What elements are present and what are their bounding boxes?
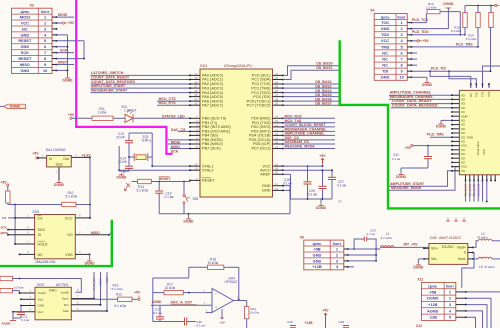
svg-text:GND: GND xyxy=(21,68,30,73)
svg-text:CB_BUS7: CB_BUS7 xyxy=(315,101,332,105)
svg-text:C28: C28 xyxy=(339,320,345,324)
svg-text:CB_BUS3: CB_BUS3 xyxy=(315,84,332,88)
svg-text:TCK: TCK xyxy=(381,20,389,25)
wire Vin- to DGND xyxy=(418,258,424,260)
svg-text:AGND: AGND xyxy=(1,321,11,325)
pin 8 PB7 (SCK) xyxy=(190,148,200,150)
pin 7 Sync DD3 xyxy=(71,298,94,300)
wire ground rail under reset xyxy=(159,213,290,215)
svg-text:VCC: VCC xyxy=(65,216,73,220)
svg-text:Конт: Конт xyxy=(398,16,406,20)
pin PLD bottom 3 xyxy=(473,175,475,181)
wire AMPLITUDE_CHANNEL to PLD xyxy=(389,94,452,96)
svg-text:MISO: MISO xyxy=(91,231,100,235)
svg-text:AMPLITUDE_CHANNEL: AMPLITUDE_CHANNEL xyxy=(285,132,326,136)
pin 16 PD2 (INT0) xyxy=(273,126,284,128)
svg-text:-12В: -12В xyxy=(429,315,438,320)
pin 26 PC4 (TDO) xyxy=(273,92,284,94)
resistor R17 10 kOhm (input) xyxy=(164,290,183,294)
wire CB_BUS1 from PC1 xyxy=(283,70,339,79)
svg-text:Vin-: Vin- xyxy=(431,257,438,261)
svg-text:PA3 (ADC3): PA3 (ADC3) xyxy=(202,86,224,90)
pin PLD left 10 xyxy=(452,132,459,134)
svg-text:12: 12 xyxy=(194,167,198,171)
wire MCU_CTS to PA6 xyxy=(157,100,190,102)
svg-text:CS: CS xyxy=(2,216,6,220)
svg-text:VoutB: VoutB xyxy=(60,291,68,295)
resistor R15 5.1 kOhm xyxy=(464,6,466,13)
wire PLD_TDO xyxy=(412,34,465,36)
wire LED to PB0 xyxy=(133,117,190,119)
svg-text:DGND: DGND xyxy=(427,296,439,301)
svg-text:AM4T-0115DZ: AM4T-0115DZ xyxy=(439,236,461,240)
wire CB_BUS2 from PC2 xyxy=(283,83,339,85)
svg-text:11: 11 xyxy=(275,182,278,186)
pin PLD bottom 5 xyxy=(482,175,484,181)
wire PLD bottom xyxy=(465,181,467,202)
pin Vout+ DA5 xyxy=(468,246,473,248)
svg-text:+: + xyxy=(215,305,217,309)
pin 36 PA4 (ADC4) xyxy=(190,92,200,94)
svg-text:PLD_TMS: PLD_TMS xyxy=(427,132,444,136)
wire X11 row 3 xyxy=(456,304,466,306)
pin 12 XTAL2 xyxy=(190,169,200,171)
wire SCK to PB7 xyxy=(170,148,190,150)
wire MOSI to PB5 xyxy=(168,139,190,141)
svg-text:Vout+: Vout+ xyxy=(457,246,466,250)
pin PLD bottom 2 xyxy=(469,175,471,181)
svg-text:Vref: Vref xyxy=(38,310,44,314)
svg-text:20: 20 xyxy=(275,140,279,144)
ground DGND under DA1 xyxy=(58,181,60,183)
svg-text:Vout-: Vout- xyxy=(458,257,467,261)
svg-text:37: 37 xyxy=(194,85,198,89)
wire XTAL2 xyxy=(119,169,190,171)
svg-text:X7: X7 xyxy=(338,200,342,204)
svg-text:X11: X11 xyxy=(417,278,423,282)
LED VD1 L-934GT xyxy=(125,114,133,122)
svg-text:DA5: DA5 xyxy=(430,236,437,240)
capacitor C31 0.1uF xyxy=(427,146,429,157)
svg-text:RESET: RESET xyxy=(159,177,172,181)
svg-text:+5V: +5V xyxy=(68,21,75,25)
svg-text:1 кОм: 1 кОм xyxy=(98,110,107,114)
connector X4 xyxy=(374,14,407,81)
svg-text:39: 39 xyxy=(194,76,198,80)
wire COUNT_DATA_RECEIVED to PA2 xyxy=(91,83,191,85)
wire VoutA xyxy=(19,291,21,293)
resistor R14 5.1 kOhm (pullup) xyxy=(477,6,479,13)
pin PLD left 14 xyxy=(452,149,459,151)
wire crystal network xyxy=(118,146,120,171)
svg-text:5.1 кОм: 5.1 кОм xyxy=(66,195,77,199)
wire AMPLITUDE_START to PLD xyxy=(389,171,452,187)
wire AMPLITUDE_CHANNEL from PD4 xyxy=(283,134,335,136)
svg-text:+12В: +12В xyxy=(312,264,322,269)
pin 2 Vdd DD3 xyxy=(21,298,35,300)
wire VCC rail xyxy=(283,165,323,167)
svg-text:10 кОм: 10 кОм xyxy=(165,286,176,290)
wire RESET loop X3 xyxy=(57,40,85,42)
svg-text:35: 35 xyxy=(194,93,198,97)
svg-text:0.1 мк: 0.1 мк xyxy=(283,182,293,186)
svg-text:+5V: +5V xyxy=(134,291,141,295)
wire PLD bottom xyxy=(482,181,484,202)
wire AMPLITUDE_START to PA3 xyxy=(91,87,191,89)
wire cap ground rail xyxy=(291,198,333,200)
svg-text:SCK: SCK xyxy=(171,150,179,154)
svg-text:DGND: DGND xyxy=(117,176,128,180)
pin 34 PA6 (ADC6) xyxy=(190,100,200,102)
svg-text:0.1 мк: 0.1 мк xyxy=(337,183,347,187)
svg-text:+5V: +5V xyxy=(405,146,412,150)
svg-text:L-934GT: L-934GT xyxy=(124,109,137,113)
pin 3 GND DD3 xyxy=(21,305,35,307)
svg-text:Sync: Sync xyxy=(62,297,69,301)
svg-text:18: 18 xyxy=(275,132,279,136)
svg-text:22 пФ: 22 пФ xyxy=(116,135,125,139)
wire MESSBAUER_CHANNEL to PLD xyxy=(389,98,452,100)
wire CB_BUS3 from PC3 xyxy=(283,87,339,89)
svg-text:Sclk: Sclk xyxy=(63,309,69,313)
pin PLD left 7 xyxy=(452,119,459,121)
wire Vdd rail xyxy=(71,298,117,300)
svg-text:DGND: DGND xyxy=(413,266,424,270)
wire pin 1 stub xyxy=(206,312,213,314)
svg-text:GND: GND xyxy=(381,26,390,31)
pin 29 PC7 (TOSC2) xyxy=(273,104,284,106)
power +5V bottom center xyxy=(325,313,327,328)
svg-text:PA7 (ADC7): PA7 (ADC7) xyxy=(202,103,224,107)
pin 5 SI DD2 xyxy=(8,234,35,236)
wire MCU_RTS to PA7 xyxy=(157,104,190,106)
wire +5V pullup rail xyxy=(465,5,495,7)
resistor R10 5.1 kOhm (horizontal) xyxy=(8,204,62,206)
pin 15 PD1 (TXD) xyxy=(273,122,284,124)
svg-text:27: 27 xyxy=(275,93,279,97)
svg-text:+5V: +5V xyxy=(32,152,39,156)
svg-text:L5: L5 xyxy=(479,265,483,269)
svg-text:GND: GND xyxy=(262,184,271,188)
wire GND to DGND above X4 xyxy=(412,28,449,30)
svg-text:PD6 (ICP): PD6 (ICP) xyxy=(253,142,271,146)
pin 6 Din DD3 xyxy=(71,304,100,306)
svg-text:Gnd: Gnd xyxy=(56,162,63,166)
pin Vout- DA5 xyxy=(468,258,473,260)
svg-text:5.1 кОм: 5.1 кОм xyxy=(466,37,476,41)
power +5V for DD2 pullup xyxy=(7,184,9,186)
wire +12B stub X6 xyxy=(348,266,354,268)
svg-text:33: 33 xyxy=(194,102,198,106)
capacitor C28 xyxy=(343,325,349,327)
svg-text:NC: NC xyxy=(22,26,28,31)
pin 19 PD5 (OC1A) xyxy=(273,139,284,141)
svg-text:SI: SI xyxy=(38,233,41,237)
svg-text:MISO: MISO xyxy=(20,62,30,67)
ground DGND at DA5 xyxy=(417,263,419,265)
pin 10 VCC xyxy=(273,165,284,167)
svg-text:PLD_TDI: PLD_TDI xyxy=(431,67,446,71)
svg-text:10 кОм: 10 кОм xyxy=(250,310,260,314)
svg-text:PB0 (SCK T0): PB0 (SCK T0) xyxy=(202,117,227,121)
svg-text:VSS: VSS xyxy=(65,253,73,257)
wire op-amp V- down xyxy=(221,309,223,319)
svg-text:GND: GND xyxy=(313,258,322,263)
wire LATCHES_SWITCH to PA0 xyxy=(91,74,191,76)
svg-text:DD3: DD3 xyxy=(37,283,44,287)
svg-text:AREF: AREF xyxy=(260,173,271,177)
wire GND rows X6 xyxy=(348,254,376,256)
svg-text:0.1 мк: 0.1 мк xyxy=(165,195,175,199)
svg-text:TDI: TDI xyxy=(382,69,388,74)
pin PLD left 6 xyxy=(452,115,459,117)
connector X6 xyxy=(304,240,344,270)
pin PLD top stubs xyxy=(470,84,472,88)
wire CB_BUS5 from PC5 xyxy=(283,96,339,98)
pin 1 CS DD2 xyxy=(15,217,34,219)
svg-text:DATARAM_CS: DATARAM_CS xyxy=(285,140,310,144)
wire CB_BUS6 from PC6 xyxy=(283,100,339,102)
resistor R11 1 kOhm xyxy=(72,117,92,119)
svg-text:GND: GND xyxy=(21,32,30,37)
wire MCU_TxD from PD1 xyxy=(283,122,335,124)
pin 32 AREF xyxy=(273,173,284,175)
power +5V at X3.2 xyxy=(62,22,64,24)
pin PLD bottom 1 xyxy=(465,175,467,181)
wire VCC from X3.2 xyxy=(57,22,63,24)
svg-text:SCK: SCK xyxy=(38,228,46,232)
svg-text:AGND: AGND xyxy=(152,300,163,304)
svg-text:Конт: Конт xyxy=(446,285,454,289)
wire DAC_CS to PB3 xyxy=(178,130,190,132)
svg-text:SCK: SCK xyxy=(1,226,8,230)
svg-text:PB4 (SS): PB4 (SS) xyxy=(202,134,219,138)
svg-text:DAC_CS: DAC_CS xyxy=(171,128,186,132)
svg-text:DGND: DGND xyxy=(63,79,74,83)
port DGND (left edge) xyxy=(4,104,26,108)
power +5V to PLD VCC xyxy=(411,145,413,147)
svg-text:5.1 кОм: 5.1 кОм xyxy=(112,287,123,291)
wire COUNT_BLOCK_RESET from PD2 xyxy=(283,126,335,128)
svg-text:DAC: DAC xyxy=(49,289,57,293)
svg-text:32: 32 xyxy=(275,171,279,175)
svg-text:5.1 кОм: 5.1 кОм xyxy=(115,304,126,308)
op-amp, sorry, MCU DD4 ATmega324A-PU body xyxy=(200,69,273,197)
svg-text:MOSI: MOSI xyxy=(1,231,9,235)
resistor R22 (left edge, bottom) xyxy=(0,288,13,292)
svg-text:PA1 (ADC1): PA1 (ADC1) xyxy=(202,78,224,82)
svg-text:+5В: +5В xyxy=(313,246,320,251)
wire MISO to PB6 xyxy=(168,143,190,145)
svg-text:+5V: +5V xyxy=(322,309,329,313)
pin 4 Vref DD3 xyxy=(13,311,35,313)
svg-text:CB_BUS1: CB_BUS1 xyxy=(316,66,333,70)
pin 14 PD0 (RXD) xyxy=(273,117,284,119)
pin 8 VCC DD2 xyxy=(75,217,90,219)
switch SB1 xyxy=(183,182,185,195)
wire 0 pin xyxy=(462,253,474,288)
diode VD2 (reset) xyxy=(125,183,131,191)
svg-text:+12В: +12В xyxy=(305,321,314,325)
svg-text:RESET: RESET xyxy=(202,179,215,183)
wire DATARAM_CS from PD6 xyxy=(283,143,335,145)
svg-text:2.2 кОм: 2.2 кОм xyxy=(426,5,436,9)
svg-text:TDI: TDI xyxy=(474,92,478,97)
wire GND bus X3 xyxy=(57,34,68,36)
wire MESSBAUER_START to PA4 xyxy=(91,92,191,94)
wire DSP_CS from PD5 xyxy=(283,139,335,141)
pin 33 PA7 (ADC7) xyxy=(190,104,200,106)
svg-text:AMPLITUDE_START: AMPLITUDE_START xyxy=(91,84,126,88)
wire COUNT_DATA_RECEIVED to PLD xyxy=(391,107,452,109)
pin PLD left 12 xyxy=(452,140,459,142)
svg-text:RESET: RESET xyxy=(18,38,32,43)
svg-text:5.1 кОм: 5.1 кОм xyxy=(137,189,148,193)
svg-text:+5V: +5V xyxy=(68,113,75,117)
svg-text:10 кОм: 10 кОм xyxy=(14,286,24,290)
svg-text:DGND: DGND xyxy=(10,105,21,109)
wire CB_BUS4 from PC4 xyxy=(283,92,339,94)
svg-text:NC: NC xyxy=(382,63,388,68)
pin 21 PD7 (OC2) xyxy=(273,148,284,150)
pin 7 PB6 (MISO) xyxy=(190,143,200,145)
pin 40 PA0 (ADC0) xyxy=(190,74,200,76)
svg-text:MCU_RxD: MCU_RxD xyxy=(285,115,303,119)
wire AREF xyxy=(283,173,291,175)
pin 3 DA1 / +3.3V rail xyxy=(71,156,90,158)
pin 6 SCK DD2 xyxy=(8,229,35,231)
svg-text:DGND: DGND xyxy=(443,2,454,6)
svg-text:MISO: MISO xyxy=(58,60,67,64)
svg-text:−: − xyxy=(215,291,217,295)
ground DGND crystal xyxy=(123,171,125,173)
wire MEASURE_MODE to PLD xyxy=(389,167,459,191)
svg-text:GND: GND xyxy=(262,189,271,193)
svg-text:DD2: DD2 xyxy=(33,210,40,214)
wire PLD_TMS to PLD xyxy=(430,136,452,138)
svg-text:RESET: RESET xyxy=(18,56,32,61)
svg-text:DGND: DGND xyxy=(422,83,433,87)
svg-text:PC1 (SDA): PC1 (SDA) xyxy=(251,78,271,82)
svg-text:STATUS_LED: STATUS_LED xyxy=(162,114,185,118)
DD3 AD7303 body xyxy=(35,287,71,320)
svg-text:TDO: TDO xyxy=(381,32,389,37)
DD2 25AA256 body xyxy=(35,215,76,259)
svg-text:VCC: VCC xyxy=(487,91,491,97)
pin 27 PC5 (TDI) xyxy=(273,96,284,98)
capacitor C30 4.7uF (bridge) xyxy=(354,239,364,249)
wire PLD top pin 3 xyxy=(483,66,500,84)
power +5V MCU xyxy=(322,158,324,163)
svg-text:14: 14 xyxy=(275,115,279,119)
svg-text:VCC: VCC xyxy=(482,148,486,155)
pin 28 PC6 (TOSC1) xyxy=(273,100,284,102)
pin PLD left 8 xyxy=(452,124,459,126)
PLD DD5 body xyxy=(459,90,500,174)
pin 2 PB1 (T1) xyxy=(190,122,200,124)
wire VoutB feedback xyxy=(20,279,82,293)
svg-text:X4: X4 xyxy=(370,9,374,13)
svg-text:+5V: +5V xyxy=(219,320,224,324)
pin PLD left 3 xyxy=(452,103,459,105)
wire X11 row 1 xyxy=(456,291,466,293)
svg-text:DGND: DGND xyxy=(316,206,327,210)
wire XTAL1 xyxy=(152,165,190,167)
svg-text:TMS: TMS xyxy=(381,44,390,49)
svg-text:NC: NC xyxy=(382,50,388,55)
svg-text:OP90AZ: OP90AZ xyxy=(225,280,238,284)
wire MCU_RxD from PD0 xyxy=(283,117,335,119)
wire op-amp output xyxy=(234,300,247,302)
pin 3 NC DD2 xyxy=(20,253,35,255)
svg-text:PC7 (TOSC2): PC7 (TOSC2) xyxy=(247,103,272,107)
power +5V for LED xyxy=(70,117,72,119)
svg-text:Цепь: Цепь xyxy=(428,285,437,289)
svg-text:PD0 (RXD): PD0 (RXD) xyxy=(251,117,271,121)
resistor R12 5.1 kOhm xyxy=(118,297,132,301)
ground DGND under SB1 xyxy=(188,214,190,217)
wire CS/HOLD pullup vertical xyxy=(14,205,16,245)
svg-text:10: 10 xyxy=(399,75,403,80)
svg-text:X6: X6 xyxy=(300,235,304,239)
svg-text:Din: Din xyxy=(64,303,69,307)
pin PLD left 5 xyxy=(452,111,459,113)
pin 39 PA1 (ADC1) xyxy=(190,79,200,81)
svg-text:25AA256-I/SN: 25AA256-I/SN xyxy=(35,260,56,264)
svg-text:COUNT_BLOCK_RESET: COUNT_BLOCK_RESET xyxy=(285,123,327,127)
svg-text:MOSI: MOSI xyxy=(58,13,67,17)
svg-text:MESSBAUER_START: MESSBAUER_START xyxy=(91,88,128,92)
svg-text:+5V: +5V xyxy=(1,180,8,184)
svg-text:0.1 мк: 0.1 мк xyxy=(308,193,318,197)
svg-text:X3: X3 xyxy=(30,3,34,7)
capacitor C25 xyxy=(290,325,296,327)
svg-text:CS: CS xyxy=(38,216,44,220)
svg-text:INT_+5V: INT_+5V xyxy=(404,243,419,247)
wire SCK from X3.7 xyxy=(57,52,75,54)
resistor R21 10 kOhm xyxy=(246,301,248,307)
svg-text:MOSI: MOSI xyxy=(20,14,30,19)
svg-text:25: 25 xyxy=(275,85,279,89)
svg-text:7: 7 xyxy=(44,50,46,55)
svg-text:SO: SO xyxy=(67,233,72,237)
wire COUNT_DATA_READY to PA1 xyxy=(91,79,191,81)
wire SCK highlighted net (magenta) xyxy=(76,0,172,154)
svg-text:DGND: DGND xyxy=(184,220,195,224)
svg-text:DC/DC: DC/DC xyxy=(442,245,454,249)
svg-text:I/O: I/O xyxy=(469,93,473,97)
wire PLD bottom xyxy=(469,181,471,202)
svg-text:PC5 (TDI): PC5 (TDI) xyxy=(253,95,271,99)
svg-text:DAC_A_OUT: DAC_A_OUT xyxy=(171,301,194,305)
svg-text:R12: R12 xyxy=(116,292,122,296)
connector X11 xyxy=(421,282,455,320)
svg-text:AD7303: AD7303 xyxy=(56,283,68,287)
pin 11 GND xyxy=(273,185,284,187)
ground DGND at PLD GND pin xyxy=(441,119,452,121)
wire PLD_TMS xyxy=(412,46,479,48)
ground DGND under X3 xyxy=(67,76,69,78)
svg-text:+5V: +5V xyxy=(319,154,326,158)
resistor R19 (vertical pullup) xyxy=(7,186,9,191)
connector X3 xyxy=(12,8,53,73)
pin 1 DA1 xyxy=(38,157,47,159)
pin PLD left 13 xyxy=(452,145,459,147)
pin 30 AVCC xyxy=(273,169,284,171)
svg-text:PD2 (INT0): PD2 (INT0) xyxy=(251,125,271,129)
svg-text:I/O: I/O xyxy=(461,169,466,173)
pin 9 RESET xyxy=(190,179,200,181)
